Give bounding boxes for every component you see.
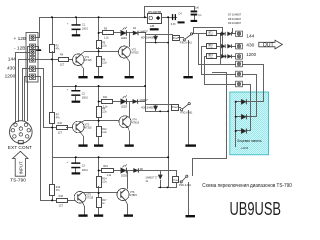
svg-text:VD4 1N4007: VD4 1N4007	[141, 36, 155, 39]
svg-text:КТ815: КТ815	[132, 52, 140, 55]
svg-text:1N4007: 1N4007	[139, 30, 148, 33]
svg-text:LED2: LED2	[121, 105, 128, 108]
svg-text:144: 144	[246, 34, 254, 40]
svg-text:R16: R16	[59, 195, 64, 198]
svg-text:+13,8: +13,8	[241, 146, 249, 150]
svg-text:D9 1N4007: D9 1N4007	[228, 21, 242, 25]
svg-text:Лицевая панель: Лицевая панель	[237, 139, 262, 143]
svg-text:Рле1: Рле1	[173, 37, 179, 40]
svg-text:1н0: 1н0	[195, 7, 200, 10]
svg-text:КТ815: КТ815	[130, 194, 138, 197]
svg-text:РЭС-0-361: РЭС-0-361	[179, 184, 192, 187]
svg-text:R15: R15	[103, 165, 108, 168]
svg-text:12В: 12В	[150, 25, 155, 28]
svg-text:- 12В: - 12В	[14, 45, 25, 51]
svg-text:LED1: LED1	[121, 37, 128, 40]
svg-text:КТ315: КТ315	[86, 196, 94, 199]
svg-text:1N4007: 1N4007	[139, 99, 148, 102]
svg-text:РЭС-К-361: РЭС-К-361	[180, 41, 193, 44]
svg-text:1СТ: 1СТ	[58, 131, 63, 134]
svg-text:РЭС-К-361: РЭС-К-361	[180, 112, 193, 115]
svg-text:LED3: LED3	[121, 175, 128, 178]
svg-text:1200: 1200	[5, 73, 16, 79]
svg-text:100,0: 100,0	[82, 28, 89, 31]
svg-text:UB9USB: UB9USB	[230, 199, 282, 219]
svg-text:D7 1N4007: D7 1N4007	[228, 12, 242, 16]
svg-text:КТ315: КТ315	[85, 126, 93, 129]
svg-text:430: 430	[7, 65, 15, 71]
svg-text:1СТ: 1СТ	[60, 63, 65, 66]
svg-text:Схема переключения диапазонов: Схема переключения диапазонов TS-790	[202, 183, 292, 189]
svg-text:INPUT: INPUT	[18, 161, 23, 174]
svg-text:Рле3: Рле3	[173, 179, 179, 182]
svg-text:1N4007 "2": 1N4007 "2"	[145, 176, 157, 179]
svg-text:VD5 1N4007: VD5 1N4007	[141, 107, 155, 110]
svg-text:КР142ЕН8Б: КР142ЕН8Б	[148, 11, 162, 14]
svg-text:1СТ: 1СТ	[59, 204, 64, 207]
svg-text:D8 1N4007: D8 1N4007	[228, 17, 242, 21]
svg-text:OUT: OUT	[263, 42, 275, 48]
svg-text:EXT CONT: EXT CONT	[8, 145, 32, 151]
svg-text:R11: R11	[103, 96, 108, 99]
svg-text:Рле2: Рле2	[172, 106, 178, 109]
svg-text:КТ315: КТ315	[85, 59, 93, 62]
svg-text:100,0: 100,0	[82, 97, 89, 100]
svg-text:+ 12В: + 12В	[14, 36, 27, 42]
svg-text:430: 430	[246, 42, 254, 48]
svg-text:TS-790: TS-790	[10, 177, 26, 183]
svg-text:R10: R10	[58, 122, 63, 125]
svg-text:0,33: 0,33	[171, 23, 176, 26]
svg-text:КТ815: КТ815	[132, 121, 140, 124]
svg-text:100,0: 100,0	[82, 169, 89, 172]
svg-text:1200: 1200	[246, 52, 256, 57]
svg-text:144: 144	[8, 56, 16, 62]
